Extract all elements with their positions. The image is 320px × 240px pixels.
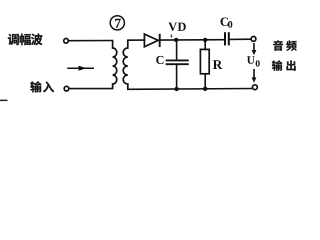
junction node J3 (C bottom): [174, 87, 178, 91]
label 出 (output char2): [287, 60, 296, 70]
U0 arrow lower: [252, 69, 257, 83]
label 输 (input char1): [30, 81, 41, 92]
transformer primary winding L1: [113, 40, 117, 88]
wire W3 secondary top to diode: [128, 39, 145, 41]
wire C bottom stub: [176, 65, 178, 89]
label VD: [168, 23, 185, 31]
label C0: [221, 17, 233, 27]
label R: [213, 60, 223, 69]
junction node J4 (R bottom): [203, 87, 207, 91]
label U0: [247, 56, 260, 66]
wire W4 diode cathode to C0: [159, 39, 224, 41]
input signal arrow: [67, 66, 94, 71]
wire W2 bottom-left horizontal: [70, 88, 113, 90]
resistor R box: [200, 49, 209, 73]
junction node J2 (R top): [203, 38, 207, 42]
terminal T1 (AM input top): [64, 39, 69, 44]
label C: [156, 56, 163, 64]
U0 arrow upper: [252, 43, 257, 55]
label 幅 (AM wave char2): [20, 34, 31, 45]
scan artifact mark bottom-left: [0, 100, 8, 102]
terminal T3 (output top): [251, 37, 256, 42]
wire W5 C0 to output terminal: [230, 38, 251, 40]
scan speckle near VD: [171, 35, 172, 38]
wire R bottom stub: [204, 74, 206, 89]
wire R top stub: [204, 40, 206, 50]
label 输 (output char1): [272, 60, 283, 70]
wire C top stub: [176, 40, 178, 60]
label 入 (input char2): [43, 81, 54, 92]
junction node J1 (C top): [174, 38, 178, 42]
label 音 (audio char1): [273, 40, 283, 50]
transformer secondary winding L2: [123, 40, 128, 89]
label 调 (AM wave char1): [8, 34, 19, 45]
capacitor C plates: [167, 59, 188, 61]
diode VD: [144, 34, 159, 47]
wire bottom rail: [128, 88, 252, 91]
capacitor C0 plates: [225, 32, 229, 45]
terminal T4 (output bottom): [253, 85, 258, 90]
circled number 7: [110, 16, 124, 30]
label 波 (AM wave char3): [31, 34, 43, 45]
label 频 (audio char2): [286, 40, 297, 50]
terminal T2 (input bottom): [64, 86, 69, 91]
wire W1 top-left horizontal: [69, 40, 113, 42]
